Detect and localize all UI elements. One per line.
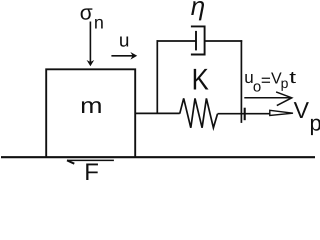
damper piston [195, 31, 197, 51]
svg-text:η: η [191, 0, 205, 21]
u_o arrow [244, 92, 291, 106]
svg-text:p: p [310, 110, 320, 135]
friction force F arrow [67, 160, 114, 163]
svg-text:K: K [192, 64, 209, 97]
svg-text:u: u [119, 30, 130, 51]
damper cylinder cup [191, 26, 205, 54]
wire spring to wall [218, 113, 271, 115]
u displacement arrow [111, 52, 137, 60]
mass block [46, 69, 135, 157]
reference tick [244, 108, 246, 121]
wire left vertical of loop [156, 40, 158, 113]
spring zigzag [180, 98, 218, 127]
sigma_n load arrow [87, 22, 95, 67]
wire right vertical of loop [240, 40, 242, 123]
svg-text:m: m [80, 93, 102, 118]
svg-text:V: V [294, 97, 310, 123]
svg-text:σ: σ [80, 2, 93, 25]
svg-text:F: F [84, 159, 99, 182]
svg-text:n: n [94, 13, 104, 33]
wire loop top right segment [205, 40, 243, 42]
svg-text:=: = [261, 73, 271, 90]
svg-text:p: p [281, 75, 289, 91]
wire mass to spring node [135, 112, 180, 114]
ground [1, 156, 315, 158]
V_p velocity arrow (hollow head) [270, 110, 293, 115]
wire loop top left segment [157, 40, 197, 42]
svg-text:t: t [289, 68, 296, 87]
